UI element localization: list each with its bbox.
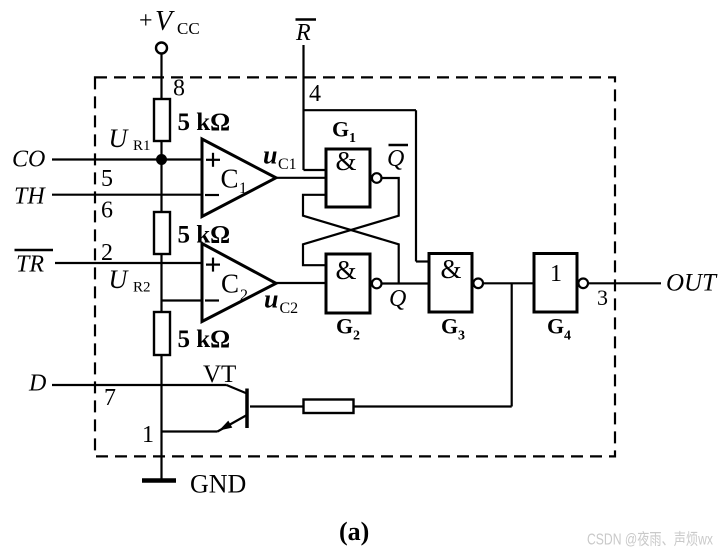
svg-text:D: D bbox=[28, 371, 46, 397]
svg-text:8: 8 bbox=[173, 76, 185, 102]
svg-text:7: 7 bbox=[104, 385, 116, 411]
svg-text:(a): (a) bbox=[339, 517, 369, 546]
svg-text:CC: CC bbox=[177, 19, 200, 38]
svg-text:2: 2 bbox=[353, 329, 360, 344]
svg-text:R: R bbox=[295, 20, 311, 46]
svg-text:1: 1 bbox=[239, 180, 247, 197]
svg-text:1: 1 bbox=[349, 131, 356, 146]
svg-text:R2: R2 bbox=[133, 280, 151, 296]
svg-text:G: G bbox=[441, 314, 458, 339]
svg-text:U: U bbox=[109, 265, 130, 294]
svg-text:C: C bbox=[221, 164, 239, 194]
svg-text:G: G bbox=[547, 314, 564, 339]
svg-text:&: & bbox=[441, 254, 462, 284]
svg-text:3: 3 bbox=[597, 285, 608, 310]
svg-text:1: 1 bbox=[142, 422, 154, 448]
svg-text:CSDN @夜雨、声烦wx: CSDN @夜雨、声烦wx bbox=[587, 531, 713, 549]
svg-text:u: u bbox=[263, 141, 277, 170]
svg-text:U: U bbox=[109, 124, 130, 153]
svg-text:3: 3 bbox=[458, 329, 465, 344]
svg-text:1: 1 bbox=[550, 261, 562, 287]
svg-text:2: 2 bbox=[101, 240, 113, 266]
svg-text:&: & bbox=[336, 146, 357, 176]
svg-text:5 kΩ: 5 kΩ bbox=[178, 222, 231, 249]
svg-text:6: 6 bbox=[101, 198, 113, 224]
svg-text:OUT: OUT bbox=[666, 270, 718, 297]
svg-text:4: 4 bbox=[309, 81, 321, 107]
svg-text:Q: Q bbox=[387, 146, 404, 172]
svg-text:TH: TH bbox=[14, 184, 46, 210]
svg-text:&: & bbox=[336, 255, 357, 285]
svg-text:C1: C1 bbox=[278, 156, 297, 173]
svg-text:5: 5 bbox=[101, 166, 113, 192]
svg-text:GND: GND bbox=[190, 470, 246, 499]
svg-text:Q: Q bbox=[389, 286, 406, 312]
svg-text:C2: C2 bbox=[280, 300, 299, 317]
svg-text:+: + bbox=[139, 8, 153, 34]
svg-text:G: G bbox=[332, 117, 349, 142]
svg-text:5 kΩ: 5 kΩ bbox=[178, 326, 231, 353]
svg-text:V: V bbox=[155, 6, 175, 37]
svg-text:4: 4 bbox=[564, 329, 571, 344]
svg-text:2: 2 bbox=[240, 287, 248, 304]
svg-text:G: G bbox=[336, 314, 353, 339]
svg-text:CO: CO bbox=[12, 147, 45, 173]
svg-text:5 kΩ: 5 kΩ bbox=[178, 109, 231, 136]
svg-text:u: u bbox=[264, 285, 278, 314]
svg-text:C: C bbox=[221, 269, 239, 299]
svg-text:R1: R1 bbox=[133, 138, 151, 154]
svg-text:VT: VT bbox=[203, 361, 236, 388]
svg-text:TR: TR bbox=[16, 252, 44, 278]
